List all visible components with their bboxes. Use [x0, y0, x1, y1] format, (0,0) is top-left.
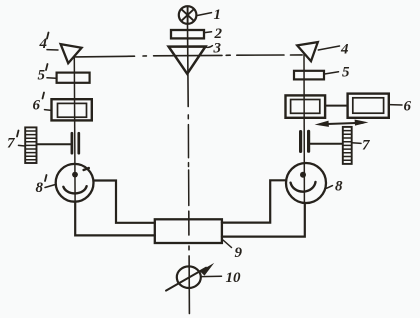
leader to label 6' — [45, 109, 52, 112]
unit 9 — [155, 219, 222, 243]
filter 5 — [294, 71, 324, 80]
cuvette 6' inner — [58, 103, 87, 117]
right optical axis vertical — [303, 54, 305, 203]
cuvette 6 inner — [291, 100, 320, 114]
svg-text:7: 7 — [7, 136, 15, 152]
leader to label 3 — [205, 46, 213, 48]
leader to label 4 — [318, 46, 339, 50]
svg-text:8: 8 — [36, 180, 44, 196]
svg-text:6: 6 — [404, 99, 412, 115]
prism 4 — [297, 42, 318, 61]
svg-text:6: 6 — [33, 98, 41, 114]
svg-text:7: 7 — [362, 138, 370, 154]
meter needle — [166, 268, 206, 291]
anode arc 8 — [291, 182, 316, 192]
cuvette 6' outer — [52, 99, 92, 120]
svg-text:9: 9 — [235, 245, 243, 261]
meter needle arrowhead — [200, 263, 214, 276]
diaphragm 2 — [171, 30, 204, 38]
shutter plates right — [301, 131, 309, 151]
left optical axis vertical — [73, 56, 76, 202]
meter 10 — [177, 266, 201, 288]
reference cuvette 6 inner — [353, 98, 384, 113]
wire photocell 8 left to unit 9 — [222, 180, 286, 222]
svg-text:5: 5 — [342, 65, 350, 81]
leader to label 8' — [45, 184, 56, 187]
leader to label 9 — [223, 240, 232, 248]
filter 5' — [57, 73, 90, 83]
optical axis vertical dash-dot segments — [187, 115, 190, 206]
prism 3 — [169, 47, 206, 74]
shutter plates left — [72, 133, 79, 153]
leader to label 6 — [389, 104, 402, 106]
wire photocell 8' bottom to unit 9 — [75, 202, 155, 236]
optical axis vertical lower segments — [188, 211, 191, 313]
photocell 8' — [56, 164, 94, 202]
double arrow — [315, 120, 369, 127]
leader to label 7 — [352, 142, 361, 145]
leader to label 5' — [47, 77, 56, 79]
anode arc 8' — [63, 186, 86, 193]
leader to label 10 — [201, 275, 222, 277]
leader to label 1 — [197, 13, 212, 16]
link line 6 — [325, 105, 347, 107]
cuvette 6 outer — [286, 95, 326, 117]
cathode dot 8' — [72, 172, 78, 178]
optical axis vertical (center) — [187, 24, 190, 107]
leader to label 4' — [47, 49, 58, 51]
prism 4' — [61, 44, 82, 63]
scale 7' — [25, 127, 36, 163]
leader to label 2 — [205, 31, 212, 34]
leader to label 5 — [325, 72, 339, 74]
reference cuvette 6 outer — [348, 94, 389, 118]
svg-text:3: 3 — [213, 41, 222, 57]
link rod 7' to shutter — [37, 143, 71, 145]
cathode dot 8 — [300, 172, 306, 178]
svg-text:5: 5 — [38, 68, 46, 84]
link rod shutter to scale 7 — [310, 143, 342, 145]
scale 7 — [343, 127, 352, 164]
svg-text:10: 10 — [226, 270, 242, 286]
lamp 1 — [179, 6, 197, 24]
svg-text:1: 1 — [214, 7, 222, 23]
optical axis horizontal dash-dot — [76, 55, 303, 57]
photocell 8 — [286, 163, 326, 203]
wire photocell 8' right to unit 9 — [95, 181, 155, 223]
svg-text:4: 4 — [340, 42, 349, 58]
tick inside 8' — [84, 168, 89, 170]
svg-text:8: 8 — [335, 179, 343, 195]
leader to label 7' — [19, 144, 26, 147]
leader to label 8 — [327, 186, 333, 189]
wire photocell 8 bottom to unit 9 — [222, 203, 305, 236]
